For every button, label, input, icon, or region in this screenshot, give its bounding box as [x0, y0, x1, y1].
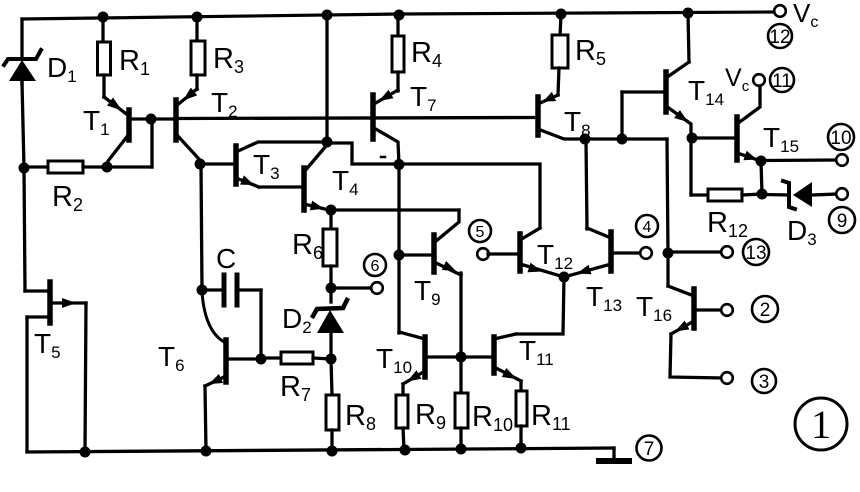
wire T16 collector riser [666, 253, 669, 286]
wire R5 bottom [558, 68, 559, 95]
wire T8c corner down [667, 139, 668, 253]
junction R1 top rail [98, 12, 109, 23]
label T13 [586, 281, 622, 315]
wire T6e down [205, 386, 206, 451]
transistor T2 emitter [176, 89, 197, 106]
label T1 [83, 105, 110, 139]
resistor R8 [326, 395, 339, 430]
wire C left [202, 288, 221, 291]
wire D3 left [762, 193, 789, 197]
terminal 9 [829, 207, 855, 233]
junction T13e riser [580, 134, 591, 145]
transistor T14 base bar [663, 72, 669, 112]
wire R2 right [83, 165, 107, 168]
transistor T9 emitter arrow [442, 261, 456, 271]
wire C right [239, 288, 261, 291]
label R4 [411, 37, 442, 71]
transistor T1 collector [107, 134, 129, 167]
transistor T13 base bar [608, 232, 614, 271]
transistor T3 emitter [236, 178, 259, 187]
transistor T16 collector diag [668, 286, 694, 296]
wire R10 bottom [459, 428, 462, 449]
node terminal 4 circle [640, 247, 652, 259]
wire top supply rail [22, 12, 775, 19]
diode D1 cathode bar [4, 50, 41, 65]
wire R8 top [331, 359, 332, 395]
terminal 2 [752, 296, 778, 322]
label R3 [213, 43, 244, 77]
wire T13 base [613, 251, 641, 254]
junction T1-T2 base [146, 114, 157, 125]
resistor R1 [98, 42, 111, 75]
transistor T12 base bar [517, 234, 523, 271]
wire T2c down to C node [201, 164, 202, 290]
wire T12 base [488, 252, 518, 255]
junction C left node [197, 285, 208, 296]
transistor T15 emitter arrow [743, 151, 757, 160]
wire T4e to T9 collector [331, 208, 459, 211]
wire T2c to T3 base [200, 162, 234, 165]
wire T14 base vertical [620, 92, 623, 139]
svg-text:6: 6 [371, 258, 380, 275]
wire D2 bottom [329, 334, 332, 359]
junction T10/T11 base [456, 352, 467, 363]
transistor T8 collector [538, 129, 667, 139]
terminal 4 [636, 215, 658, 237]
transistor T14 collector [666, 62, 689, 78]
transistor T12 collector [520, 228, 540, 240]
junction terminal 6 node [326, 283, 337, 294]
wire T6 base [228, 357, 261, 360]
svg-text:2: 2 [760, 300, 771, 321]
transistor T6 base bar [223, 340, 229, 382]
wire R6 bottom [329, 266, 332, 289]
wire T3e to T4 base [259, 185, 302, 188]
resistor R12 [708, 189, 742, 201]
label T2 [211, 87, 238, 121]
label Vc (pin 12) [793, 0, 818, 31]
label R10 [472, 401, 513, 435]
transistor T8 base bar [535, 97, 541, 135]
wire T13e riser [586, 141, 587, 229]
wire T10e down [401, 384, 404, 396]
transistor T7 emitter [374, 90, 398, 104]
wire T9e down [459, 273, 462, 393]
label R5 [575, 35, 606, 69]
wire R3 bottom [195, 75, 198, 89]
transistor T1 emitter [104, 97, 129, 116]
transistor T16 emitter arrow [675, 321, 689, 332]
resistor R5 [552, 35, 568, 68]
transistor T16 base bar [691, 289, 697, 328]
transistor T15 emitter [737, 153, 761, 161]
wire T5 left down [25, 317, 28, 451]
diode D1 anode triangle [9, 60, 36, 81]
transistor T12 emitter [520, 264, 564, 277]
wire R9 bottom [403, 428, 404, 450]
transistor T10 collector diag [399, 332, 425, 339]
wire left edge below D1 [22, 82, 25, 291]
transistor T1 base bar [126, 110, 132, 140]
node Vc terminal (12) [774, 5, 786, 17]
transistor T2 emitter arrow [183, 88, 197, 101]
transistor T11 emitter arrow [502, 368, 517, 379]
transistor T5 arrow [62, 298, 76, 308]
diode D2 cathode bar [313, 300, 347, 316]
junction T6 rail [201, 446, 212, 457]
wire D3 right [812, 194, 837, 195]
transistor T5 drain line [52, 301, 86, 304]
junction T9 base [394, 250, 405, 261]
wire T11c riser [516, 277, 564, 334]
terminal 13 [743, 239, 769, 265]
label R7 [280, 371, 311, 405]
label T16 [636, 291, 672, 325]
transistor T13 emitter arrow [577, 265, 592, 275]
wire R7 left [261, 356, 281, 359]
terminal 10 [828, 124, 854, 150]
resistor R7 [281, 352, 313, 364]
terminal 11 [770, 68, 794, 92]
label T5 [34, 328, 61, 362]
transistor T5 bar [47, 282, 53, 323]
wire R2 left [24, 165, 48, 168]
wire T7c vertical [397, 164, 400, 333]
wire R1 top [101, 17, 104, 44]
label R1 [119, 45, 150, 79]
diode D1 wire [20, 78, 23, 84]
wire T15 base [692, 136, 735, 139]
resistor R11 [516, 391, 527, 426]
junction T4 emitter [326, 205, 337, 216]
svg-text:5: 5 [476, 224, 485, 241]
transistor T6 collector [202, 292, 226, 343]
svg-text:10: 10 [830, 128, 851, 149]
label T10 [376, 343, 412, 377]
wire T5 base feed [25, 289, 47, 292]
label R11 [531, 400, 571, 434]
transistor T4 collector [304, 143, 327, 172]
junction T14c rail [683, 8, 694, 19]
label D3 [787, 215, 817, 249]
label C [216, 243, 236, 274]
transistor T11 base bar [491, 337, 497, 373]
junction terminal 13 node [663, 248, 674, 259]
wire to terminal 6 [331, 286, 372, 289]
svg-text:12: 12 [769, 27, 790, 48]
junction R9 rail [400, 445, 411, 456]
svg-text:7: 7 [644, 439, 655, 460]
svg-text:4: 4 [643, 219, 652, 236]
transistor T4 emitter [304, 204, 329, 210]
svg-text:11: 11 [772, 71, 792, 92]
capacitor C right plate [235, 275, 240, 305]
junction R2 right [102, 162, 113, 173]
transistor T10 emitter [403, 371, 425, 384]
terminal 3 [752, 369, 776, 393]
wire T14c riser [688, 13, 689, 62]
label R8 [345, 400, 376, 434]
wire R12 left [691, 193, 708, 196]
wire R1 bottom [102, 75, 105, 97]
wire T10-T11 base [427, 355, 492, 358]
node terminal 2 circle [721, 304, 733, 316]
node terminal 3 circle [721, 372, 733, 384]
transistor T9 emitter [434, 262, 461, 275]
junction R4 top rail [394, 10, 405, 21]
junction R2 left edge [19, 163, 30, 174]
wire T14 base horizontal [622, 90, 664, 93]
node terminal 13 circle [721, 246, 733, 258]
label T7 [410, 81, 437, 115]
capacitor C left plate [222, 275, 227, 305]
transistor T5 source line [27, 315, 48, 318]
transistor T2 collector [176, 134, 200, 164]
terminal 7 [637, 436, 662, 461]
wire R4 bottom [396, 72, 399, 91]
wire common base line [178, 118, 536, 119]
wire Vc11 down [737, 86, 760, 124]
wire T9 base [399, 253, 432, 256]
wire T16 base [696, 308, 722, 311]
wire R7 right [313, 358, 331, 359]
label T4 [332, 165, 359, 199]
junction T3/T4 collector [322, 137, 333, 148]
resistor R2 [48, 161, 83, 173]
junction rail x327 [322, 10, 333, 21]
wire R11 bottom [519, 426, 522, 448]
label T15 [763, 122, 799, 156]
wire T16e down [670, 334, 722, 378]
junction T12/T13 emitters [559, 272, 570, 283]
transistor T13 emitter [564, 264, 611, 277]
junction T15 base node [687, 133, 698, 144]
transistor T6 emitter arrow [209, 374, 223, 384]
label Vc (pin 11) [725, 64, 750, 95]
transistor T4 base bar [301, 168, 307, 210]
junction R5 top rail [556, 9, 567, 20]
svg-text:3: 3 [759, 372, 770, 393]
transistor T16 emitter [671, 321, 694, 334]
svg-text:C: C [216, 243, 236, 274]
wire R12 right [742, 194, 762, 195]
label R6 [292, 229, 323, 263]
wire left edge (D1 branch) [20, 19, 23, 56]
transistor T7 collector [374, 128, 399, 164]
transistor T3 collector [236, 142, 325, 152]
wire ground stub [612, 448, 615, 460]
wire C right down [259, 290, 262, 359]
transistor T13 collector [587, 228, 611, 238]
label T11 [519, 335, 554, 369]
label R12 [707, 207, 748, 241]
resistor R10 [455, 393, 468, 428]
junction R3 top rail [192, 12, 203, 23]
resistor R4 [392, 36, 404, 72]
transistor T11 emitter [494, 367, 521, 381]
label T12 [537, 239, 573, 273]
wire bottom rail [27, 448, 614, 452]
transistor T2 base bar [173, 100, 179, 140]
figure number 1 [795, 398, 847, 450]
resistor R9 [396, 395, 408, 428]
transistor T8 emitter [538, 95, 558, 104]
label D2 [282, 303, 312, 337]
transistor T8 emitter arrow [543, 92, 556, 102]
transistor T7 base bar [370, 95, 376, 139]
junction T6 base node [256, 354, 267, 365]
label R9 [415, 399, 446, 433]
transistor T10 base bar [422, 337, 428, 377]
wire T1-T2 base [131, 117, 174, 120]
transistor T9 collector [436, 210, 459, 241]
junction T15 emitter [756, 156, 767, 167]
junction R12/D3 [757, 189, 768, 200]
wire base-collector tie horizontal [107, 165, 152, 168]
terminal 12 [768, 24, 792, 48]
transistor T6 emitter [205, 376, 226, 386]
resistor R6 [323, 229, 337, 266]
wire T3/T4c to T12e [329, 143, 540, 228]
wire to terminal 13 [668, 250, 722, 253]
junction crossing x399 [394, 159, 405, 170]
wire R8 bottom [330, 430, 333, 451]
node Vc terminal (11) [753, 74, 765, 86]
svg-text:1: 1 [811, 402, 831, 447]
transistor T4 emitter arrow [310, 201, 324, 211]
wire R6 top [329, 210, 332, 230]
stray mark [381, 156, 385, 159]
junction R7/D2/R8 [326, 354, 337, 365]
transistor T9 base bar [431, 235, 437, 272]
transistor T14 emitter [666, 106, 691, 136]
wire R3 top [195, 17, 198, 43]
node terminal 10 circle [836, 154, 848, 166]
junction R10 rail [456, 444, 467, 455]
diode D3 triangle [793, 182, 812, 207]
junction T2 collector [195, 159, 206, 170]
node terminal 5 circle [477, 248, 489, 260]
label T8 [564, 106, 591, 140]
transistor T1 emitter arrow [107, 98, 122, 111]
junction R8 rail [327, 446, 338, 457]
wire T11e down [519, 381, 522, 392]
wire rail to T3/T4 collector [325, 15, 328, 142]
terminal 6 [364, 254, 386, 276]
transistor T7 emitter arrow [379, 90, 394, 101]
wire T15e to terminal 10 [764, 158, 837, 162]
diode D2 triangle [317, 310, 344, 333]
label T14 [688, 75, 724, 109]
transistor T15 base bar [734, 117, 740, 160]
wire R4 top [396, 15, 399, 38]
wire T15b down [689, 138, 692, 195]
junction T14 base drop [617, 134, 628, 145]
label T6 [158, 341, 185, 375]
node terminal 6 circle [371, 282, 383, 294]
transistor T12 emitter arrow [528, 263, 543, 273]
wire R5 top [560, 14, 561, 37]
junction R11 rail [516, 443, 527, 454]
transistor T3 emitter arrow [240, 175, 254, 185]
label R2 [52, 181, 83, 215]
resistor R3 [191, 41, 205, 75]
wire D2 top [329, 288, 332, 302]
transistor T3 base bar [233, 146, 239, 184]
label D1 [47, 52, 77, 86]
svg-text:9: 9 [837, 211, 848, 232]
ground symbol [599, 458, 629, 464]
junction T5 rail [80, 447, 91, 458]
wire base-collector tie vertical [150, 119, 153, 167]
transistor T14 emitter arrow [674, 110, 688, 122]
node terminal 9 circle [836, 188, 848, 200]
svg-text:13: 13 [745, 243, 766, 264]
diode D3 cathode bar [783, 181, 795, 209]
transistor T11 collector diag [494, 334, 516, 339]
terminal 5 [469, 220, 491, 242]
label T3 [253, 149, 280, 183]
label T9 [414, 275, 441, 309]
wire T5 right down [85, 303, 86, 452]
wire T15e down [761, 161, 762, 194]
transistor T10 emitter arrow [407, 370, 422, 381]
